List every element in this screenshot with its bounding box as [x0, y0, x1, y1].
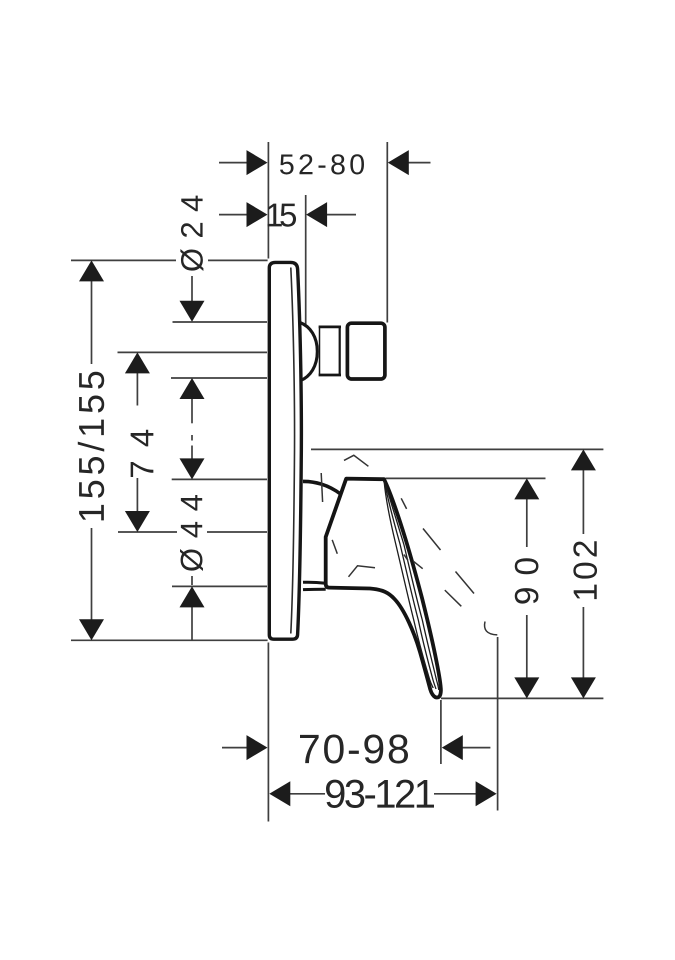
- reference line diameter44 top: [172, 478, 267, 480]
- ghost mark chevron above lever: [344, 455, 368, 466]
- reference line diameter24 top: [173, 321, 268, 323]
- extension line E5 (lever tip): [440, 700, 442, 764]
- arrowhead 102 bottom: [571, 677, 596, 698]
- label 93-121: [326, 780, 434, 808]
- arrowhead 70-98 left: [247, 735, 268, 760]
- ghost mark dash upper: [401, 498, 406, 509]
- dimension diameter44 stem bottom: [191, 607, 193, 641]
- plate face contour line: [291, 268, 295, 634]
- reference line diameter24 bottom: [171, 377, 267, 379]
- arrowhead 93-121 right: [476, 781, 497, 806]
- lever upper mounting stub: [303, 481, 341, 494]
- label 90: [515, 558, 539, 603]
- ghost mark left of lever: [332, 540, 337, 554]
- arrowhead 93-121 left: [269, 781, 290, 806]
- ghost mark inside hub: [349, 566, 376, 577]
- arrowhead 102 top: [571, 449, 596, 470]
- label 155/155: [78, 372, 104, 521]
- reference line 74 top: [118, 351, 268, 353]
- lever blade edge line 2: [384, 481, 436, 689]
- dimension 93-121 right stem: [434, 793, 477, 795]
- connector small cylinder: [319, 326, 341, 376]
- arrowhead 70-98 right: [442, 735, 463, 760]
- arrowhead 74 bottom: [125, 511, 150, 532]
- label diameter 44: [180, 495, 203, 571]
- dimension 102 line: [582, 451, 584, 697]
- dimension 52-80 left stem: [219, 162, 248, 164]
- dimension 93-121 left stem: [289, 793, 325, 795]
- arrowhead 15 right: [306, 202, 327, 227]
- connector end body: [347, 323, 385, 379]
- lever blade edge line 1: [385, 482, 439, 691]
- arrowhead 74 top: [125, 352, 150, 373]
- reference line 90/102 bottom: [441, 697, 603, 699]
- ghost mark dash right upper: [423, 529, 441, 551]
- dimension 155/155 line: [91, 262, 93, 639]
- extension line E3 (connector end): [386, 142, 388, 323]
- arrowhead 155/155 top: [79, 260, 104, 281]
- dimension 70-98 right stem: [463, 747, 491, 749]
- reference line 155/155 bottom: [71, 639, 268, 641]
- escutcheon plate (side view): [269, 262, 301, 639]
- ghost mark dash right lower: [445, 590, 462, 606]
- ghost tick on upper stub: [321, 473, 322, 502]
- arrowhead diameter44 lower: [180, 586, 205, 607]
- text backing masks: [77, 192, 598, 615]
- label 74: [131, 430, 154, 477]
- dimension 52-80 right stem: [408, 162, 431, 164]
- arrowhead diameter44 upper: [180, 458, 205, 479]
- dimension diameter24 stem above: [191, 276, 193, 302]
- arrowhead diameter24 lower: [180, 378, 205, 399]
- extension line E1 (wall face, top): [267, 142, 269, 259]
- dimension 15 left stem: [219, 214, 248, 216]
- dimension diameter44 stem below text: [191, 574, 193, 585]
- label 70-98: [300, 734, 408, 763]
- arrowhead 52-80 left: [247, 150, 268, 175]
- arrowhead 90 top: [514, 478, 539, 499]
- dimension 70-98 left stem: [222, 747, 247, 749]
- connector dome: [300, 323, 317, 381]
- extension line E4 (wall face, bottom): [267, 643, 269, 822]
- dimension stem between arrows (dashed): [191, 399, 193, 423]
- arrowhead diameter24 upper: [180, 301, 205, 322]
- ghost mark tick mid: [404, 555, 408, 561]
- reference line 102 top: [311, 448, 603, 450]
- arrowhead 90 bottom: [514, 677, 539, 698]
- reference line 155/155 top: [71, 259, 268, 261]
- reference line diameter44 bottom: [172, 585, 267, 587]
- lever lower mounting stub upper line: [303, 581, 326, 585]
- reference line 74 bottom: [118, 531, 267, 533]
- ghost lever tip arc: [485, 622, 498, 635]
- label 15: [268, 204, 297, 227]
- reference line 90 top: [386, 477, 546, 479]
- dimension 74 line: [136, 354, 138, 531]
- lever blade edge line 3: [384, 481, 433, 688]
- label diameter 24: [180, 196, 203, 271]
- lever lower mounting stub lower line: [303, 588, 326, 591]
- arrowhead 15 left: [247, 202, 268, 227]
- label 102: [573, 541, 597, 599]
- lever handle outline: [326, 479, 441, 698]
- dimension 90 line: [526, 480, 528, 697]
- arrowhead 155/155 bottom: [79, 619, 104, 640]
- ghost mark dash mid: [413, 561, 422, 569]
- dimension 15 right stem: [327, 214, 357, 216]
- arrowhead 52-80 right: [388, 150, 409, 175]
- extension line E2 (plate front face): [305, 195, 307, 325]
- label 52-80: [280, 154, 364, 174]
- extension line E6 (ghost lever tip): [497, 637, 499, 811]
- ghost mark dash right mid: [456, 572, 475, 594]
